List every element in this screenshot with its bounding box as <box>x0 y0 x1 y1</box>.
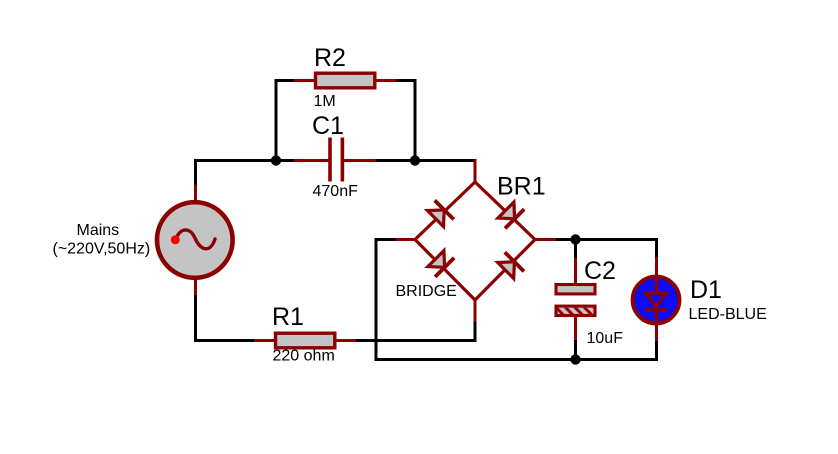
diode D-topleft of BR1 <box>426 199 455 228</box>
svg-text:220 ohm: 220 ohm <box>273 348 335 365</box>
wire: C2 bottom black part <box>574 340 577 361</box>
svg-text:D1: D1 <box>690 276 722 304</box>
svg-text:LED-BLUE: LED-BLUE <box>689 306 767 323</box>
wire: mains bottom vertical <box>194 295 197 342</box>
junction: node B (R2/C1 right) <box>410 155 420 165</box>
LED D1 <box>633 257 680 341</box>
svg-text:BRIDGE: BRIDGE <box>396 283 457 300</box>
capacitor C2 <box>552 258 606 340</box>
wire: bridge left pin black part <box>375 238 396 241</box>
wire: R1 row right horizontal to bridge bottom pin <box>356 339 477 342</box>
capacitor C1 <box>294 138 376 182</box>
junction: node A left (R2/C1 left) <box>271 155 281 165</box>
svg-text:470nF: 470nF <box>313 183 359 200</box>
diode D-bottomleft of BR1 <box>426 249 455 278</box>
wire: C2 top black part <box>574 238 577 259</box>
bridge rectifier BR1 <box>395 160 558 322</box>
wire: bottom rail horizontal <box>375 358 659 361</box>
wire: R2 row left horizontal <box>275 79 297 82</box>
wire: top rail from mains to bridge top <box>194 159 477 162</box>
wire: right branch vertical down from R2 to node B <box>414 79 417 162</box>
junction: node D (DC- at C2 bottom) <box>570 354 580 364</box>
svg-text:C2: C2 <box>584 257 616 285</box>
wire: bridge right pin to C2 node and LED corner <box>556 238 658 241</box>
svg-text:C1: C1 <box>312 112 344 140</box>
svg-text:(~220V,50Hz): (~220V,50Hz) <box>53 241 151 258</box>
svg-text:10uF: 10uF <box>587 330 624 347</box>
svg-text:R1: R1 <box>272 303 304 331</box>
junction: node C (DC+ at C2 top) <box>570 234 580 244</box>
resistor R1 <box>254 333 357 348</box>
svg-text:R2: R2 <box>314 44 346 72</box>
svg-text:1M: 1M <box>314 93 336 110</box>
svg-text:BR1: BR1 <box>497 173 546 201</box>
resistor R2 <box>294 73 397 88</box>
wire: R2 row right horizontal <box>396 79 417 82</box>
wire: LED branch top vertical <box>655 238 658 259</box>
diode D-topright of BR1 <box>496 201 525 230</box>
wire: bridge bottom pin vertical black part <box>474 320 477 342</box>
wire: mains top vertical (node A column) <box>194 159 197 187</box>
wire: left vertical down to bottom rail <box>375 238 378 361</box>
svg-text:Mains: Mains <box>77 222 120 239</box>
wire: R1 row left horizontal <box>194 339 255 342</box>
diode D-bottomright of BR1 <box>496 251 525 280</box>
AC source V1 (Mains) <box>157 185 233 296</box>
wire: LED branch bottom vertical <box>655 340 658 361</box>
wire: left branch vertical up to R2 <box>275 79 278 162</box>
